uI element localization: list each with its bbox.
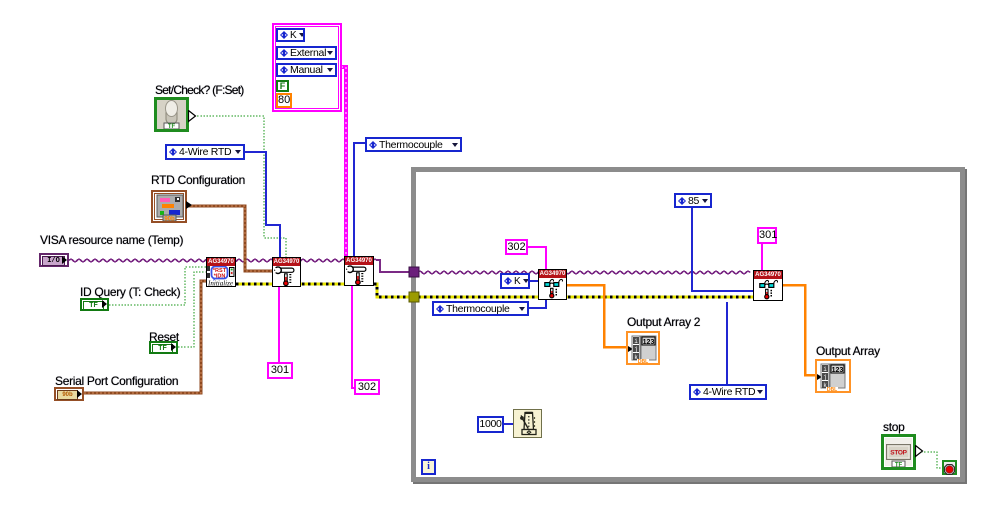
svg-text:Initialize: Initialize bbox=[207, 280, 233, 287]
svg-text:DBL: DBL bbox=[827, 387, 837, 391]
svg-text:i: i bbox=[823, 366, 827, 373]
svg-text:j: j bbox=[823, 374, 827, 381]
svg-text:123: 123 bbox=[643, 339, 655, 346]
svg-text:TF: TF bbox=[168, 124, 176, 129]
svg-text:i: i bbox=[634, 338, 638, 345]
svg-text:90b: 90b bbox=[164, 217, 175, 222]
svg-text:STOP: STOP bbox=[890, 450, 907, 457]
svg-text:DBL: DBL bbox=[638, 359, 648, 363]
svg-text:TF: TF bbox=[895, 463, 903, 468]
svg-text:j: j bbox=[634, 346, 638, 353]
svg-text:123: 123 bbox=[832, 367, 844, 374]
